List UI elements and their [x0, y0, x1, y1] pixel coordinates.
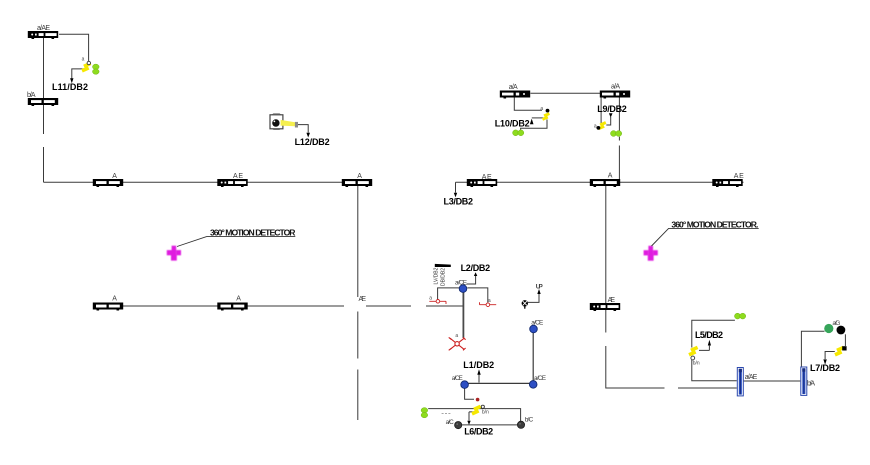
svg-text:a: a — [455, 333, 458, 339]
svg-text:AE: AE — [734, 173, 744, 180]
svg-text:A: A — [608, 173, 613, 180]
svg-text:a/AE: a/AE — [745, 374, 758, 381]
svg-text:AE: AE — [233, 173, 243, 180]
svg-text:L5/DB2: L5/DB2 — [695, 330, 723, 340]
svg-text:A: A — [357, 173, 362, 180]
svg-text:L2/DB2: L2/DB2 — [461, 263, 491, 273]
svg-text:360° MOTION DETECTOR: 360° MOTION DETECTOR — [210, 228, 296, 238]
svg-text:L3/DB2: L3/DB2 — [444, 197, 474, 207]
svg-text:a/CE: a/CE — [452, 375, 463, 382]
svg-text:a/AE: a/AE — [37, 25, 50, 32]
svg-text:b/n: b/n — [482, 410, 489, 416]
svg-text:a: a — [540, 106, 543, 112]
svg-text:a/CE: a/CE — [455, 279, 467, 286]
svg-text:A: A — [112, 173, 117, 180]
svg-text:A: A — [236, 296, 241, 303]
svg-text:AE: AE — [482, 174, 492, 181]
svg-text:a: a — [488, 298, 491, 304]
svg-text:L1/DB2: L1/DB2 — [463, 360, 494, 370]
svg-text:AE: AE — [359, 296, 367, 303]
svg-text:a: a — [594, 123, 597, 129]
svg-text:a/CE: a/CE — [534, 375, 546, 382]
svg-text:b/A: b/A — [807, 380, 815, 387]
svg-text:L12/DB2: L12/DB2 — [295, 137, 330, 147]
svg-text:b/C: b/C — [525, 417, 534, 424]
svg-text:A: A — [112, 296, 117, 303]
svg-text:L10/DB2: L10/DB2 — [495, 119, 530, 129]
svg-text:a/A: a/A — [509, 84, 518, 91]
svg-text:UP: UP — [536, 284, 544, 291]
svg-text:a: a — [82, 57, 85, 63]
svg-text:L6/DB2: L6/DB2 — [464, 427, 493, 437]
svg-text:a: a — [429, 296, 432, 302]
svg-text:DB/DB2: DB/DB2 — [440, 268, 446, 286]
svg-text:a/A: a/A — [611, 84, 620, 91]
svg-text:L11/DB2: L11/DB2 — [52, 82, 88, 92]
svg-text:b/n: b/n — [693, 361, 700, 367]
svg-text:a/CE: a/CE — [531, 320, 543, 327]
svg-text:b/A: b/A — [27, 92, 36, 99]
svg-text:L9/DB2: L9/DB2 — [597, 104, 627, 114]
svg-text:360° MOTION DETECTOR.: 360° MOTION DETECTOR. — [671, 220, 758, 230]
svg-text:AE: AE — [608, 297, 616, 304]
svg-text:L7/DB2: L7/DB2 — [810, 363, 840, 373]
svg-text:a/C: a/C — [446, 419, 455, 426]
svg-text:LV/DB2: LV/DB2 — [434, 267, 440, 284]
svg-text:a/G: a/G — [832, 320, 840, 327]
